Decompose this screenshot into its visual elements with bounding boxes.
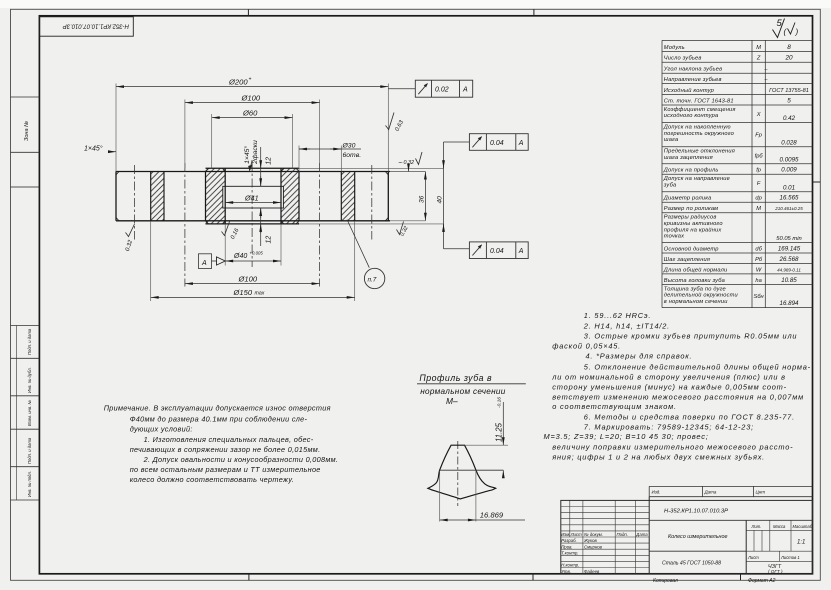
border tick bottom left of format cell [249,574,741,581]
svg-text:40: 40 [436,196,443,204]
dimension dia30 six holes [299,142,361,159]
hub right wall with chamfers [296,168,299,224]
svg-text:Изд.: Изд. [652,490,661,495]
svg-text:Примечание. В эксплуатации доп: Примечание. В эксплуатации допускается и… [104,403,331,412]
svg-text:20: 20 [784,55,793,62]
svg-text:+0.005: +0.005 [250,251,264,256]
bottom strip labels [653,578,776,584]
svg-text:Лист: Лист [747,555,759,560]
svg-text:Зона №: Зона № [24,121,30,141]
svg-text:36: 36 [418,195,425,203]
svg-text:нормальном сечении: нормальном сечении [420,387,506,396]
svg-text:10.85: 10.85 [781,277,797,284]
title block part name [668,534,728,540]
svg-text:1. Изготовления специальных па: 1. Изготовления специальных пальцев, обе… [144,435,314,444]
svg-text:Размеры радиусов: Размеры радиусов [664,215,717,221]
dimension 11.25 [495,397,504,478]
svg-text:Высота головки зуба: Высота головки зуба [664,278,725,284]
svg-text:зуба: зуба [663,183,677,189]
general roughness mark top right [773,18,799,38]
svg-text:Фадеев: Фадеев [584,569,600,574]
hole left wall [163,172,165,221]
svg-text:А: А [462,87,468,94]
tooth root line right [354,172,356,221]
tooth top extension [465,444,509,446]
svg-text:8: 8 [787,44,791,51]
title block left texts [561,532,648,574]
svg-text:М: М [756,206,761,212]
top-left inverted stamp box [39,17,133,36]
svg-text:1×45°: 1×45° [243,146,251,164]
svg-text:в нормальном сечении: в нормальном сечении [664,299,728,305]
svg-text:44.989-0.11: 44.989-0.11 [777,267,801,272]
svg-text:Ф40мм до размера 40.1мм при со: Ф40мм до размера 40.1мм при соблюдении с… [130,414,308,423]
svg-text:Направление зубьев: Направление зубьев [664,77,722,83]
svg-text:Формат А2: Формат А2 [748,578,776,584]
dimension dia100 top [185,93,320,102]
svg-text:5: 5 [787,97,791,104]
svg-text:dр: dр [755,196,761,202]
dimension 12 bottom [261,208,273,246]
svg-text:0.32: 0.32 [404,160,415,166]
part bottom face [116,220,425,222]
svg-text:12: 12 [266,157,273,165]
svg-text:Н.контр.: Н.контр. [561,563,579,568]
svg-text:Жуков: Жуков [583,538,597,543]
svg-text:Инв. № подл.: Инв. № подл. [27,471,32,497]
title block material [649,551,746,566]
svg-text:1×45°: 1×45° [84,145,103,153]
svg-text:Допуск на профиль: Допуск на профиль [663,168,719,174]
svg-text:ли от номинальной в сторону ув: ли от номинальной в сторону увеличения (… [551,373,786,382]
svg-text:Ø100: Ø100 [241,93,261,102]
svg-text:2. Допуск овальности и конусоо: 2. Допуск овальности и конусообразности … [143,455,339,464]
svg-text:№ докум.: № докум. [584,532,603,537]
svg-text:X: X [756,112,761,118]
svg-text:0.028: 0.028 [781,139,797,146]
chamfer labels 1x45 2 faski [243,140,259,172]
svg-text:Ø100: Ø100 [238,274,258,283]
svg-text:Сталь 45 ГОСТ 1050-88: Сталь 45 ГОСТ 1050-88 [662,560,721,566]
dimension dia60 [212,108,293,117]
bore left wall [222,168,225,224]
hub top face [206,167,444,169]
svg-text:колесо должно соответствовать: колесо должно соответствовать чертежу. [130,475,295,484]
svg-text:Разраб.: Разраб. [561,538,577,543]
title block lit massa masshtab [746,520,812,551]
title block org [768,564,783,574]
svg-text:169.145: 169.145 [778,245,801,252]
balloon p7 leader [347,220,369,268]
centerline pitch left [134,165,136,240]
dimension dia100 bottom [185,274,320,283]
extension lines dia40 below [225,224,281,266]
svg-text:фаской 0,05×45.: фаской 0,05×45. [552,342,621,351]
svg-text:16.565: 16.565 [780,195,799,202]
svg-text:ГОСТ 13755-81: ГОСТ 13755-81 [769,88,809,94]
dimension dia150 max [151,288,355,298]
svg-text:Число зубьев: Число зубьев [664,56,702,62]
svg-text:Взам. инв. №: Взам. инв. № [27,400,32,426]
svg-text:0.009: 0.009 [781,167,797,174]
svg-text:Исходный контур: Исходный контур [664,87,714,94]
svg-text:): ) [795,28,799,37]
tooth profile title [417,373,526,406]
svg-text:Модуль: Модуль [664,45,685,51]
svg-text:печивающих в сопряжении зазор: печивающих в сопряжении зазор не более 0… [130,445,321,454]
svg-text:Цнт: Цнт [756,490,766,495]
svg-text:hа: hа [755,278,761,284]
svg-text:16.894: 16.894 [780,300,799,307]
svg-text:шага: шага [664,137,679,143]
svg-text:Fр: Fр [755,133,762,139]
svg-text:Диаметр ролика: Диаметр ролика [663,196,712,202]
tooth chord line [440,469,504,471]
bore right wall [281,168,284,224]
extension lines dia30 [299,146,341,172]
border tick right [813,181,821,183]
technical notes [544,311,811,461]
svg-text:Подп.: Подп. [617,532,628,537]
title block list row [746,551,812,561]
groove outline [223,186,284,208]
roughness tilde 0.32 top right with arrow [398,152,423,172]
svg-text:Дата: Дата [704,490,717,495]
svg-text:Допуск на направление: Допуск на направление [663,176,730,182]
svg-text:∼: ∼ [398,161,403,167]
svg-text:Ø200: Ø200 [228,77,248,86]
centerline pitch right [371,165,373,240]
svg-text:fр: fр [756,168,761,174]
svg-text:Пров.: Пров. [561,544,572,549]
svg-text:Лит.: Лит. [751,524,762,529]
svg-text:яния; цифры 1 и 2 на любых дву: яния; цифры 1 и 2 на любых двух смежных … [551,452,765,461]
svg-text:0.02: 0.02 [435,87,449,94]
svg-text:max: max [255,291,265,297]
border zone tick top [248,9,534,16]
svg-text:Масштаб: Масштаб [793,524,813,529]
part right edge (tooth tip) [385,172,388,221]
svg-text:Ø40: Ø40 [233,253,247,260]
groove interior blank [223,187,284,208]
svg-text:Длина общей нормали: Длина общей нормали [663,266,728,273]
svg-text:А: А [518,248,524,255]
svg-text:Коэффициент смещения: Коэффициент смещения [664,107,736,113]
left margin zone box [11,97,40,152]
tooth root line left [150,172,152,221]
svg-text:1. 59...62 HRCэ.: 1. 59...62 HRCэ. [584,311,651,320]
centerline part axis [251,162,253,267]
svg-text:А: А [518,140,524,147]
dimension 16.869 [440,471,525,522]
svg-text:50.05 min: 50.05 min [776,236,801,242]
svg-text:Копировал: Копировал [653,578,678,584]
extension lines dia60 [212,114,293,168]
svg-text:F: F [757,181,761,187]
svg-text:Ст. точн. ГОСТ 1643-81: Ст. точн. ГОСТ 1643-81 [664,98,734,104]
svg-text:Ø150: Ø150 [233,288,253,297]
svg-text:2фаски: 2фаски [252,140,259,165]
runout tolerance frame 0.04 A lower [444,242,529,259]
svg-text:Н-352.КР1.10.07.010.3Р: Н-352.КР1.10.07.010.3Р [664,509,728,515]
svg-text:М=3.5; Z=39; L=20; В=10 45 30;: М=3.5; Z=39; L=20; В=10 45 30; провес; [544,432,709,441]
svg-text:W: W [756,267,762,273]
svg-text:величину поправки измерительно: величину поправки измерительного межосев… [552,442,793,451]
svg-text:16.869: 16.869 [480,511,504,520]
svg-text:Ø60: Ø60 [242,108,258,117]
roughness 0.32 bottom right [397,222,410,238]
svg-text:Предельные отклонения: Предельные отклонения [664,149,735,155]
gear parameter table [662,40,813,307]
svg-text:М–: М– [446,396,458,406]
svg-text:0.04: 0.04 [490,248,504,255]
svg-text:3. Острые кромки зубьев притуп: 3. Острые кромки зубьев притупить R0.05м… [584,332,798,341]
svg-text:1:1: 1:1 [797,540,805,546]
svg-text:12: 12 [266,236,273,244]
svg-text:Допуск на накопленную: Допуск на накопленную [663,124,731,130]
svg-text:Смирнов: Смирнов [584,544,603,549]
title block doc number [649,509,812,521]
svg-text:Z: Z [756,56,761,62]
svg-text:Размер по роликам: Размер по роликам [664,206,718,212]
datum flag A [199,254,226,269]
svg-text:Ø30: Ø30 [342,142,356,149]
svg-text:М: М [756,45,761,51]
svg-text:0.0095: 0.0095 [780,156,799,163]
svg-text:( ОГТ ): ( ОГТ ) [768,569,783,574]
svg-text:Изм.: Изм. [561,532,570,537]
svg-text:dб: dб [755,246,762,252]
roughness 0.32 left side rotated [125,224,135,252]
svg-text:сторону уменьшения (минус) на: сторону уменьшения (минус) на каждые 0,0… [552,383,787,392]
svg-text:Н-352.КР1.10.07.010.3Р: Н-352.КР1.10.07.010.3Р [63,23,129,29]
svg-text:5. Отклонение действительной д: 5. Отклонение действительной длины общей… [584,363,811,372]
hatch hub left section [206,168,226,224]
svg-text:шага зацепления: шага зацепления [664,155,713,161]
roughness 0.63 on dia200 ext [386,113,406,133]
runout tolerance frame 0.04 A upper [444,134,529,151]
svg-text:7. Маркировать: 79589-12345; 6: 7. Маркировать: 79589-12345; 64-12-23; [584,422,754,431]
svg-text:делительной окружности: делительной окружности [664,292,739,299]
centerline hole left axis [184,163,186,287]
border tick left [11,186,40,188]
dimension dia41 [225,194,281,203]
tooth profile centerline [457,441,459,506]
svg-text:Колесо измерительное: Колесо измерительное [668,534,728,540]
balloon p7 [364,268,384,288]
svg-text:Дата: Дата [635,532,648,537]
hatch web left section [151,172,164,221]
chamfer dim 1x45 left [84,145,116,153]
svg-text:fрб: fрб [755,153,764,159]
svg-text:Подп. и дата: Подп. и дата [27,437,32,464]
svg-text:точках: точках [664,234,685,240]
primechanie note [104,403,339,484]
svg-text:кривизны активного: кривизны активного [664,221,723,227]
extension line left tip [115,84,117,172]
svg-text:ветствует изменению межосевого: ветствует изменению межосевого расстояни… [552,393,804,402]
svg-text:Масса: Масса [773,524,786,529]
extension line right tip [387,84,389,172]
svg-text:профиля на крайних: профиля на крайних [664,226,723,233]
roughness 0.16 below bore [222,222,241,241]
svg-text:0.01: 0.01 [783,184,795,191]
dimension dia40 with tolerance [225,251,281,262]
gear table texts [663,44,809,307]
dimension 40 with runout frame leaders [436,142,443,249]
hatch web right section [341,172,354,221]
svg-text:дующих условий:: дующих условий: [130,424,193,433]
svg-text:6. Методы и средства поверки п: 6. Методы и средства поверки по ГОСТ 8.2… [584,412,795,421]
svg-text:+: + [249,77,252,83]
svg-text:Профиль зуба в: Профиль зуба в [419,373,492,383]
svg-text:о соответствующим знаком.: о соответствующим знаком. [552,402,677,411]
svg-text:Толщина зуба по дуге: Толщина зуба по дуге [664,286,726,292]
runout tolerance frame 0.02 A [388,80,472,97]
hole right wall [340,172,342,221]
dimension 12 top [261,147,273,186]
dimension 36 [418,172,425,221]
svg-text:11.25: 11.25 [495,422,504,442]
svg-text:Шаг зацепления: Шаг зацепления [664,257,710,263]
svg-text:Листов 1: Листов 1 [780,555,800,560]
title block upper stamp row [649,486,812,496]
svg-text:Лист: Лист [570,532,582,537]
svg-text:Ø41: Ø41 [244,194,259,203]
svg-text:п.7: п.7 [368,277,377,284]
svg-text:0.42: 0.42 [783,115,796,122]
svg-text:-0.16: -0.16 [497,397,503,408]
extension lines dia150 below [151,221,355,301]
hub left wall with chamfers [206,168,209,224]
svg-text:исходного контура: исходного контура [664,113,719,119]
svg-text:погрешность окружного: погрешность окружного [664,131,734,137]
left margin inventory boxes [11,326,40,501]
svg-text:Угол наклона зубьев: Угол наклона зубьев [663,67,722,73]
part left edge (tooth tip) [116,172,119,221]
svg-text:2. Н14, h14, ±IT14/2.: 2. Н14, h14, ±IT14/2. [583,321,670,330]
extension lines dia100 top [185,100,320,169]
svg-text:Т.контр.: Т.контр. [561,550,578,555]
svg-text:4. *Размеры для справок.: 4. *Размеры для справок. [586,352,693,361]
title block left grid [561,500,649,573]
svg-text:Утв.: Утв. [561,569,571,574]
svg-text:Инв. № дубл.: Инв. № дубл. [27,367,32,393]
hub bottom face [206,223,444,225]
dimension dia200 [116,77,388,87]
svg-text:Sбн: Sбн [754,294,765,300]
svg-text:Подп. и дата: Подп. и дата [27,328,32,355]
title block main frame [561,497,813,574]
tooth profile outline [428,445,496,499]
svg-text:6отв.: 6отв. [343,152,362,159]
hatch hub right section [281,168,299,224]
svg-text:А: А [201,260,207,267]
part top face [116,171,425,173]
svg-text:Основной диаметр: Основной диаметр [664,245,719,252]
centerline hole right axis [319,163,321,287]
svg-text:26.568: 26.568 [779,256,799,263]
svg-text:210.461±0.25: 210.461±0.25 [774,206,803,211]
svg-text:Рб: Рб [755,257,763,263]
svg-text:0.04: 0.04 [490,140,504,147]
svg-text:по всем остальным размерам и Т: по всем остальным размерам и ТТ измерите… [130,465,321,474]
